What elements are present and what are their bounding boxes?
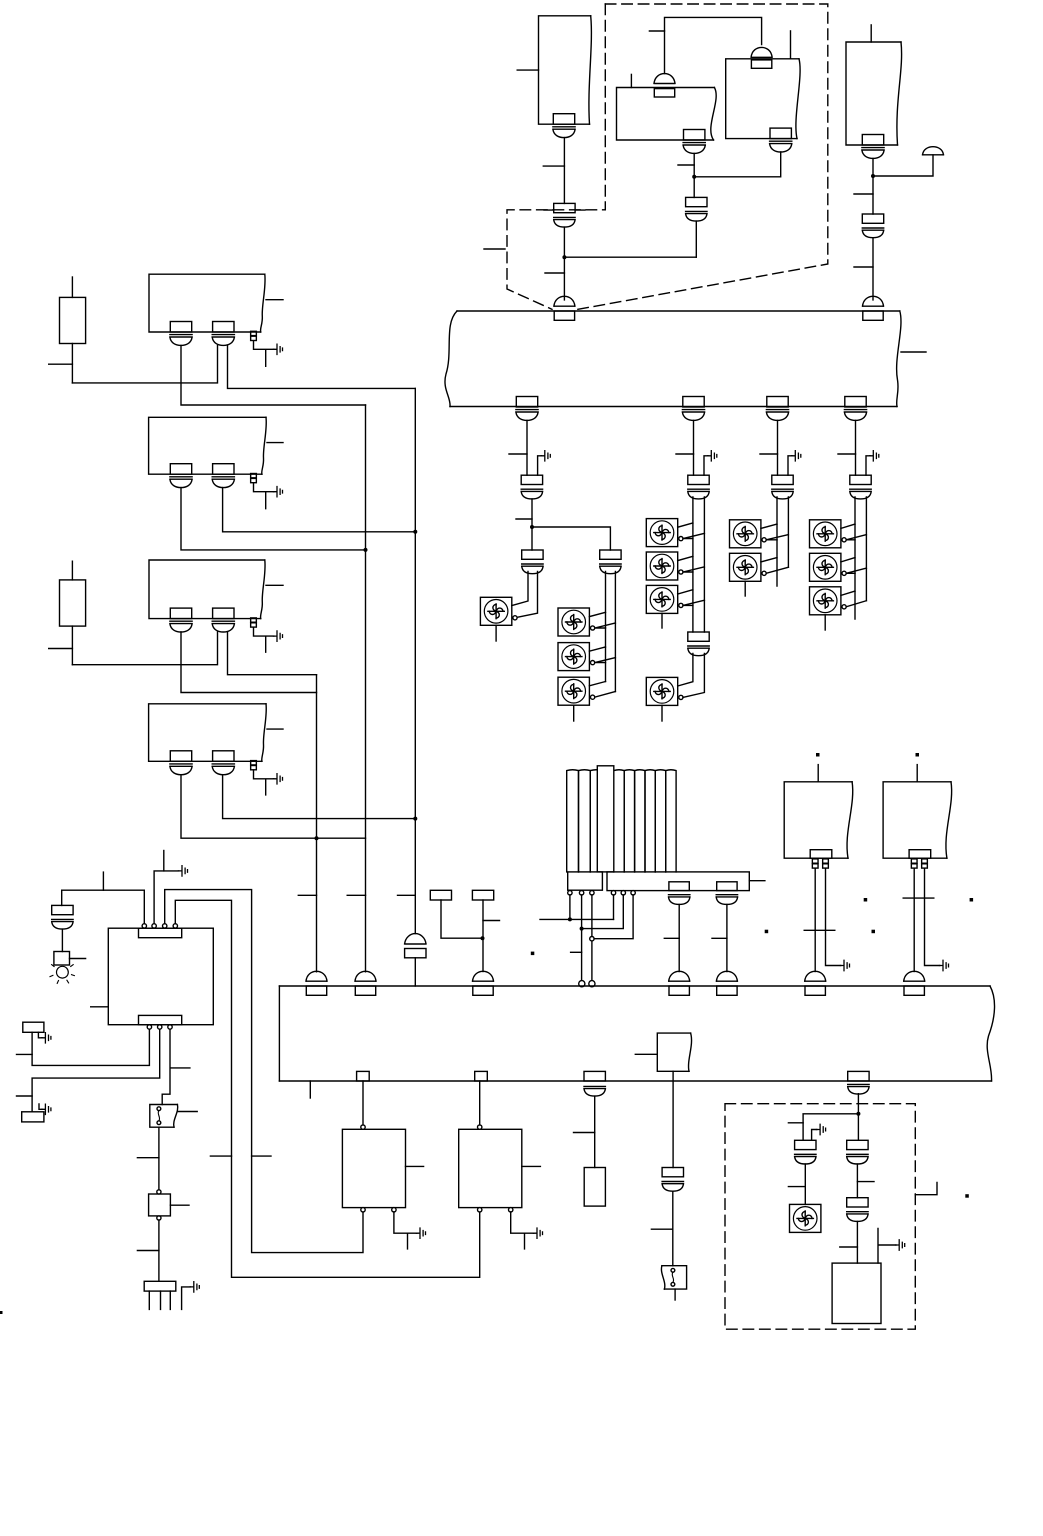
bus-bottom connector col3 [766,397,788,421]
connector on T1 bottom [553,114,575,138]
wire [856,1164,858,1198]
trunk2 to lower bus [414,958,416,986]
inline connector col3a [772,475,793,499]
wire pin3 long route to K1 [165,890,363,1253]
wire bottom pin3 to switch [162,1029,170,1104]
wire [61,929,63,951]
unit box T1 [539,16,592,124]
tiny connector + ground on box B [251,474,257,483]
bus-top connector (trunk1) [355,971,376,995]
bullet dot [965,1194,969,1198]
dashed harness enclosure [507,4,828,310]
manifold1 pin circles [568,891,572,895]
K1 top pin [361,1125,365,1129]
comb fuse bank left bars [567,770,602,872]
bus-top connector under T4 chain [863,296,884,320]
inline connector col1c [600,550,621,574]
inline connector right branch a [847,1140,868,1164]
wire A1 to trunk1 [181,345,366,405]
node dot [364,548,368,552]
R1 wire to bus [814,868,816,971]
module ground b [878,1229,896,1264]
small box left stub [635,1053,657,1055]
bullet dot [864,898,868,902]
wire comb pin2 to bus [581,895,583,981]
wire comb2 pin1 [613,895,615,919]
wire junction to T2 chain [564,256,696,258]
tiny connector + ground on box A [251,331,257,340]
wire [531,499,533,527]
fan M9 [730,520,761,548]
node dot [530,525,534,529]
S1 right stub [177,1111,197,1113]
tick [651,1228,672,1230]
connector D1 [170,751,192,775]
load resistor block [584,1168,605,1207]
node dot [871,174,875,178]
bullet dot [765,930,769,934]
wire split [532,527,610,550]
comb center tall bar [597,766,614,872]
bus-top connector (R2) [904,971,925,995]
bus-top connector (manifold b) [716,971,737,995]
tick [137,1157,159,1159]
C101 side ticks [544,209,585,211]
inline connector C102 [686,197,707,221]
R1 ground wire [826,868,841,965]
manifold2 right stub [750,880,765,882]
bottom pin circles [147,1025,151,1029]
M7 stub [661,613,663,628]
feed wire into module [857,1094,859,1141]
wire S2 to bus [482,900,484,972]
T1 left stub [517,69,538,71]
tick [788,1186,805,1188]
bus-bottom connector col4 [844,397,866,421]
wire comb2 pin2 [582,895,624,929]
connector D2 [212,751,234,775]
unit box T4 [846,42,902,145]
E2 ground [39,1104,42,1109]
lower bus harness band [279,986,994,1081]
wire to cup terminal [873,155,933,176]
trunk wire 3 [316,675,318,972]
inline connector mid chain [662,1168,683,1192]
K1 ground [394,1212,417,1249]
bus-bottom terminal to K1 [357,1071,370,1081]
wire col1 [526,420,528,475]
wire C2 right pin to trunk3 [228,632,317,675]
tick [678,164,694,166]
wire comb pin1 [540,895,614,919]
wire to module box [856,1221,858,1263]
inline connector col2a [688,475,709,499]
bus-bottom connector col2 [682,397,704,421]
wire T4 chain down [872,158,874,300]
terminal bar leads [149,1291,170,1309]
wire pin2 to ground [154,871,179,924]
R1 bottom wire [71,344,73,383]
R2 bottom wire [71,626,73,665]
ticks on manifold wires [664,937,727,939]
connector B2 [212,464,234,488]
relay box K2 [459,1129,522,1207]
bus-bottom terminal to K2 [475,1071,488,1081]
inline connector col1b [522,550,543,574]
wire to fan [804,1164,806,1204]
fan M12 [810,553,841,581]
ground branch col3 [788,456,792,475]
M8 stub [661,705,663,721]
cup terminal [923,147,944,155]
terminal bar [144,1281,176,1291]
bus pin circle a [579,981,585,987]
tick [676,453,694,455]
stub up [102,872,104,890]
unit box R2 [883,782,952,858]
tick on dashed edge [484,248,505,250]
branch to fan connector [803,1114,858,1141]
comb manifold 2 [607,872,749,891]
module right stub [915,1183,937,1195]
fan M2 [558,608,589,636]
wire C1 to trunk3 [181,632,317,693]
bus-bottom connector col1 [516,397,538,421]
wire T1 chain down [563,138,565,300]
relay box K1 [342,1129,405,1207]
fan M1 [480,597,511,625]
unit box C [149,560,265,619]
T2 top stub [630,74,632,87]
fan M13 [810,587,841,615]
ticks on long routes [210,1155,271,1157]
fan M4 [558,677,589,705]
box B right stub [267,442,283,444]
wire bottom pin2 to terminal [32,1029,160,1112]
open junction circle [590,937,594,941]
tick [854,266,873,268]
S3 bottom stub [674,1289,676,1300]
tick [788,1122,803,1124]
small box wire down [672,1071,674,1167]
tick [483,920,500,922]
lamp housing square [54,952,70,966]
E1 ground [38,1032,42,1038]
dashed module enclosure [725,1104,915,1330]
stray mark left edge [0,1311,3,1314]
switch S3 [661,1266,686,1289]
wire col3 [777,420,779,475]
bullet dot [531,952,535,956]
tick across R1 wires [804,929,835,931]
control left stub [91,1006,109,1008]
unit box D [149,704,267,762]
inline connector C101 [554,203,575,227]
tick [545,272,564,274]
M13 stub [824,615,826,630]
R1 top stub [71,277,73,297]
tick [574,1132,595,1134]
inline connector fan branch [795,1140,816,1164]
wires to fan M1 [512,572,538,618]
connector A1 [170,322,192,346]
bullet dot [970,898,974,902]
tick [649,30,664,32]
unit box B [149,417,267,474]
trunk wire 1 [365,405,367,972]
wire col4 [855,420,857,475]
wire B1 to trunk1 [181,488,366,550]
node dot [568,917,572,921]
bus-top connector (S2) [473,971,494,995]
tick [171,1067,190,1069]
unit box T3 [726,59,800,139]
module ground a [812,1130,817,1141]
wire to terminal bar [158,1220,160,1281]
upper bus harness band [445,311,901,407]
R2 ground wire [925,868,940,965]
bus-bottom connector (left chain) [584,1071,605,1081]
resistor R1 [60,297,86,343]
fan M10 [730,553,761,581]
K1 bottom pins [361,1208,365,1212]
switch S1 [150,1105,178,1128]
inline connector col1a [521,475,542,499]
trunk wires col2 [693,497,705,632]
module box [832,1263,881,1323]
R2 pin connectors [911,859,917,868]
top pin circles [142,924,146,928]
manifold2 output connector a [669,882,689,891]
wire A2 left pin to R1 [72,345,217,383]
T3 top-right stub [790,31,792,59]
trunk wires col3 [777,497,788,586]
unit box A [149,274,265,332]
wire [672,1191,674,1266]
bus pin circle b [589,981,595,987]
inline connector lamp feed [52,905,73,929]
wire A2 right pin to trunk2 [228,345,416,388]
wire T2 top to T3 top [665,17,762,73]
manifold2 pin circles [611,891,615,895]
tick across R2 wires [903,897,934,899]
R1 top wire [817,765,819,782]
wire comb pin3 to bus [591,895,593,981]
control bottom tab [139,1015,182,1024]
connector C2 [212,608,234,632]
stub up from pin2 rail [163,851,165,871]
T4 top stub [870,25,872,42]
ground branch col2 [704,456,708,475]
node dot [856,1112,860,1116]
tick [516,518,532,520]
connector on T2 top [654,74,675,97]
tick [509,453,527,455]
node dot [580,927,584,931]
fan M6 [646,552,677,580]
wire to relay [158,1127,160,1192]
tick [571,951,582,953]
tick [137,1250,159,1252]
tick [854,193,873,195]
trunk wires col1c [606,572,616,692]
tick [543,165,564,167]
connector C1 [170,608,192,632]
wire T3 chain joins T2 chain [694,152,781,177]
fan M7 [646,585,677,613]
inline connector col4a [850,475,871,499]
connector on T3 bottom [770,128,792,152]
resistor R2 [60,580,86,626]
inline connector C103 [862,214,883,238]
floating terminal S1 [430,890,451,900]
connector on T2 bottom [683,130,705,154]
M10 stub [744,581,746,596]
M1 terminal [513,616,517,620]
ground branch col1 [538,456,542,475]
M1 stub [495,625,497,641]
tick [49,363,73,365]
relay pins [157,1190,161,1194]
node dot [413,817,417,821]
wire col2 [693,420,695,475]
connector on T3 top [751,47,772,68]
node dot [315,836,319,840]
tick [857,1181,874,1183]
relay box S2 [149,1194,171,1216]
indicator lamp [50,965,74,984]
wires manifold2 to bus [679,904,727,971]
K2 ground [511,1212,534,1249]
R1 pin connectors [812,859,818,868]
terminal block E1 [23,1022,44,1032]
bullet dot [872,930,876,934]
tick [760,453,778,455]
bus-top connector (manifold a) [669,971,690,995]
wire comb2 pin3 [594,895,633,939]
fan M3 [558,643,589,671]
ground branch col4 [866,456,870,475]
tiny connector + ground on box D [251,761,257,770]
fan M8 [646,677,677,705]
wire pin4 long route to K2 [175,900,479,1277]
wire pin1 to lamp connector [62,890,145,924]
tick [838,453,856,455]
terminal block E2 [22,1112,44,1122]
tiny connector + ground on box C [251,618,257,627]
comb manifold 1 [568,872,603,890]
floating terminal S2 [472,890,493,900]
small box on bus [657,1033,691,1071]
lamp housing stub [70,958,86,960]
inline connector right branch b [847,1198,868,1222]
K2 feed wire [479,1081,481,1125]
K2 right stub [522,1165,541,1167]
wire bottom pin1 to terminal [32,1029,149,1065]
comb right bars [614,770,676,872]
R2 top wire [916,765,918,782]
aux fan M15 [790,1204,821,1232]
manifold2 output connector b [717,882,737,891]
box D right stub [267,728,283,730]
connector B1 [170,464,192,488]
trunk wire 2 [414,388,416,933]
node dot [481,936,485,940]
node dot [413,530,417,534]
wire S1 [441,900,483,938]
bullet dot [816,753,820,757]
wires to fan M8 [678,654,705,698]
fan M5 [646,519,677,547]
wire B2 to trunk2 [223,488,416,532]
wire left chain [594,1096,596,1167]
wire T2 chain [694,153,696,257]
unit box R1 [784,782,853,858]
inline connector col2b [688,632,709,656]
wire D1 across trunk3 to trunk1 [181,775,366,839]
wire C2 left pin to R2 [72,632,217,665]
trunk wires col4 [855,497,866,619]
M4 stub [573,705,575,721]
K2 bottom pins [478,1208,482,1212]
trunk2 inline connector (flipped) [405,934,426,958]
box C right stub [266,584,283,586]
bullet dot [916,753,920,757]
R2 wire to bus [913,868,915,971]
connector on T4 bottom [862,135,884,159]
bus-top connector (R1) [805,971,826,995]
unit box T2 [617,88,717,141]
R2 bottom tab [909,850,931,859]
box A right stub [266,299,283,301]
bus-top connector under T1 chain [554,296,575,320]
control top tab [139,928,182,938]
connector A2 [212,322,234,346]
R2 top stub [71,561,73,580]
terminal bar ground lead [182,1287,191,1310]
fan M11 [810,520,841,548]
bus bottom stub [309,1081,311,1098]
R1 bottom tab [810,850,832,859]
tick [17,1053,33,1055]
relay right stub [170,1204,189,1206]
upper bus right stub [901,351,926,353]
wire D2 to trunk2 [223,775,416,819]
K1 right stub [406,1165,424,1167]
tick [17,1095,33,1097]
node dot [692,175,696,179]
control unit box [108,928,213,1024]
K1 feed wire [362,1081,364,1125]
ticks on trunks above lower bus [298,894,415,896]
node junction T1/T2 chains [562,255,566,259]
tick [49,648,73,650]
bus-top connector (trunk3) [306,971,327,995]
K2 top pin [478,1125,482,1129]
tick [840,1246,858,1248]
bus-bottom connector (dashed-box feed) [848,1071,869,1081]
